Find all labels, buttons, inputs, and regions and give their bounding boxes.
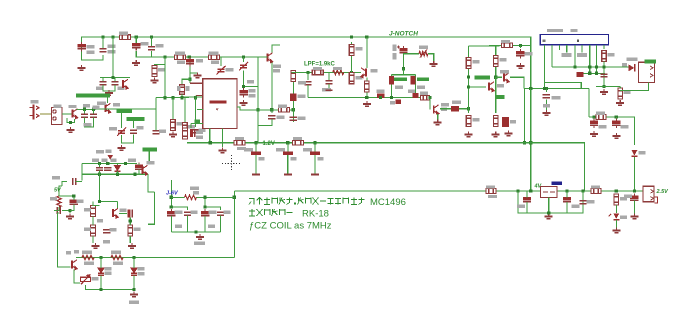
wire [615,117,617,120]
junction [379,96,382,99]
crystal X2 body [389,76,394,85]
wire [366,78,368,98]
resistor R31 [57,196,61,207]
junction [581,189,584,192]
header pin 6 wire [581,45,583,53]
wire [258,119,272,126]
ground [612,133,620,138]
net polygon bar B [116,109,132,113]
wire [593,117,595,120]
label C44 [175,211,183,214]
wire [102,37,104,48]
wire [189,57,191,79]
ground [545,214,553,219]
capacitor C19 [325,81,332,84]
net polygon bar H [474,76,490,80]
junction [194,230,197,233]
wire [566,202,568,213]
wire [403,53,405,69]
wire Q1 emitter [271,63,273,113]
label C30 [276,148,285,151]
diode D4 LED [609,213,620,219]
wire [76,257,234,259]
junction [111,35,114,38]
wire [85,118,94,128]
wire x4 return [620,82,648,90]
junction [124,162,127,165]
label R8 [278,105,287,108]
wire [189,79,191,83]
label Q11 [66,251,71,254]
wire vxo rail [100,77,130,79]
label D1 [626,58,637,61]
wire 8V rail [136,56,258,58]
label C22 [452,101,461,104]
label R37 [111,251,121,254]
label C38 [128,159,136,162]
wire [148,192,154,224]
label [622,63,627,66]
junction [313,141,316,144]
label C42 [110,228,117,231]
junction [428,96,431,99]
wire [526,191,528,198]
junction [588,72,591,75]
junction [516,189,519,192]
wire [99,164,101,168]
wire X5 hook [654,197,658,203]
ground [430,61,438,66]
svg-text:1.2V: 1.2V [263,141,275,147]
junction [92,108,95,111]
label [138,272,145,275]
junction [615,115,618,118]
resistor R37 [111,255,123,259]
capacitor C45 [184,212,191,215]
connector X1 jack [30,105,40,120]
wire [86,285,135,290]
wire [437,114,439,120]
junction [270,108,273,111]
wire [148,152,150,164]
ground [128,243,136,248]
label C2 [108,45,116,48]
label [393,53,397,60]
label C5 [196,59,203,62]
trimmer capacitor CT1 [217,66,226,75]
label C10 [137,126,144,129]
wire [596,85,620,87]
wire [205,197,221,210]
diode D5 [114,166,120,172]
junction [171,96,174,99]
electrolytic C24 [502,117,509,127]
wire [469,86,486,88]
label C34 [587,200,595,203]
electrolytic C1 [77,42,85,51]
junction [494,76,497,79]
wire [148,174,154,192]
electrolytic C28 [612,119,620,128]
wire [255,143,257,152]
electrolytic C27 [590,119,598,128]
svg-text:J-NOTCH: J-NOTCH [389,31,418,38]
junction [547,211,550,214]
electrolytic C46 [201,209,209,218]
electrolytic C29 plate [252,174,260,176]
junction [98,200,101,203]
label R1 [119,32,128,35]
capacitor C11 [81,114,88,117]
capacitor C12 [90,114,97,117]
label C47 [224,211,231,214]
electrolytic C33 [563,195,571,204]
wire Q1 collector [272,45,280,53]
label C45 [191,211,198,214]
electrolytic C32 [523,195,531,204]
junction [588,65,591,68]
junction [180,96,183,99]
label R29 [591,185,600,188]
label R36 [82,251,92,254]
wire [164,57,166,98]
wire [99,171,101,175]
label [249,94,256,97]
electrolytic C31 [310,152,320,155]
wire [184,98,186,122]
capacitor C10 [130,130,137,133]
electrolytic C40 [70,198,78,207]
label CT2 [109,127,117,130]
label C12 [93,106,100,109]
wire cell bottom [171,231,220,233]
wire [496,76,502,78]
junction [69,121,72,124]
label C8 [96,87,103,90]
schematic title line2 katakana [249,209,293,216]
electrolytic C30 plate [284,174,292,176]
wire [292,72,294,122]
wire [181,94,183,98]
wire [92,217,94,226]
junction [350,35,353,38]
transistor Q9 [143,165,148,175]
label value [108,50,116,53]
junction [519,44,522,47]
label CT1 [226,68,234,71]
varactor D7 [131,268,137,275]
junction [365,96,368,99]
junction [106,162,109,165]
label C6 [249,89,256,92]
wire vol rail [589,117,634,145]
ground [616,100,624,105]
wire [519,45,521,48]
header pin 4 wire [566,45,568,53]
label JP1 [547,29,563,32]
wire [197,196,235,198]
label C1 [87,45,95,48]
wire [428,54,434,62]
transistor Q7 [489,82,494,92]
label D7 [138,267,145,270]
label [237,147,246,150]
label [193,191,199,194]
label [106,150,112,153]
wire 12V bus [187,143,584,191]
junction [292,108,295,111]
connector X4 body [638,62,654,82]
ground [516,63,524,68]
label [177,61,185,64]
connector X5 body [643,186,654,201]
op-amp U1 MC1496 body [203,79,237,129]
label JP1 value [570,29,577,32]
label C33 [572,205,580,208]
label [259,157,265,160]
label gnd2 [194,242,205,245]
junction [150,35,153,38]
ground [600,89,608,94]
label R14 [356,47,363,50]
capacitor C17 [290,117,297,120]
ic VR1 body [541,187,558,198]
resistor R4 [152,66,157,77]
label R6 [188,125,195,128]
junction [254,141,257,144]
wire [204,216,206,232]
header pin 9 wire [603,45,605,49]
net polygon bar A [76,93,110,97]
header pin 7 wire [589,45,591,74]
wire [100,174,118,201]
transistor Q5 [361,68,366,78]
resistor R2 [175,55,186,60]
label C35 [624,195,632,198]
label C26 [552,96,561,99]
wire [619,86,621,88]
wire [135,37,137,43]
wire [220,57,222,66]
label C13 [199,129,206,132]
ground [118,145,126,150]
wire [93,202,100,206]
wire [566,191,568,198]
wire [171,196,184,198]
ground [630,214,638,219]
wire Q4 emitter [67,118,75,122]
wire lpf bottom [308,97,430,99]
label [74,250,79,253]
resistor R5 [171,120,176,131]
capacitor C18 [304,82,311,85]
wire [468,109,470,113]
diode D1 [628,64,635,71]
electrolytic C31 plate [311,174,319,176]
label Q4 [69,105,77,108]
junction [523,141,526,144]
capacitor C39 [73,178,76,185]
junction [467,107,470,110]
capacitor C34 [579,201,586,204]
net polygon bar X4 [645,59,656,63]
capacitor C47 [217,212,224,215]
ground [67,127,75,132]
wire [116,202,118,208]
label [84,262,94,265]
wire [116,164,118,166]
ground [434,120,442,125]
electrolytic C5 [186,57,194,66]
junction [188,56,191,59]
label R12 [333,67,342,70]
wire [307,85,309,98]
resistor R33 [91,225,96,236]
schematic title line1 kanji [351,198,365,205]
wire [103,85,115,91]
diode D2 [576,72,583,77]
label C7 [277,116,285,119]
wire [633,201,635,214]
wire [112,98,156,109]
wire [510,77,524,88]
label C29 [244,148,253,151]
label Q5 [371,69,378,72]
wire T1 to Q4 base [62,113,72,115]
label R24 [624,91,631,94]
wire [73,196,75,200]
junction [98,173,101,176]
electrolytic C48 [377,94,385,99]
wire Q3 drain [107,97,109,103]
wire [429,98,431,110]
label C24 [510,120,516,123]
label R38 [92,277,99,280]
wire long vert 530 [530,89,532,192]
junction [467,75,470,78]
gray pad pin6 [577,53,587,57]
label R21 [500,58,507,61]
wire [307,72,309,79]
wire [190,124,192,128]
resistor R18 [466,58,471,69]
capacitor C26 [543,95,550,98]
transistor Q6 [434,105,439,115]
junction [83,108,86,111]
transistor Q10 [113,208,118,218]
junction [350,71,353,74]
wire [615,220,617,228]
junction [116,173,119,176]
trimmer R16 [419,52,428,56]
header pin 5 wire [574,45,576,67]
label [273,69,280,72]
ground [590,131,598,136]
resistor R19 [466,116,471,127]
junction [68,209,71,212]
junction [595,65,598,68]
wire U1 left pin1 [195,96,197,98]
wire [92,236,94,243]
junction [592,115,595,118]
wire vxo top rail [82,163,137,165]
wire [92,109,94,113]
junction [98,162,101,165]
label [103,240,110,243]
wire [495,46,497,77]
wire [81,164,83,181]
electrolytic C22 [451,106,459,112]
wire [390,75,392,98]
ground [218,148,226,153]
electrolytic C30 [283,152,293,155]
varactor D6 [98,268,104,275]
electrolytic C16 [290,93,296,101]
label [318,157,324,160]
label Q3 [97,102,106,105]
wire [88,124,90,127]
transformer T1 [52,108,63,125]
capacitor C49 [396,100,402,105]
junction [306,71,309,74]
wire [132,121,134,129]
net polygon bar I [495,95,505,99]
ground [612,228,620,233]
svg-text:MC1496: MC1496 [370,197,406,208]
wire [328,84,330,90]
electrolytic C29 [251,152,261,155]
ground [92,243,100,248]
svg-text:LPF=1.9kC: LPF=1.9kC [304,61,336,67]
electrolytic C20 plus [397,46,400,49]
electrolytic C6 [239,88,247,97]
label X1 [31,100,39,103]
wire lpf [291,71,361,73]
wire U1 left pin2 [197,108,203,110]
capacitor C36 [96,168,103,171]
resistor R26 [234,140,245,145]
wire main 6V bus [234,190,643,192]
wire [121,113,123,128]
origin crosshair [222,155,241,172]
label R16 [419,46,428,49]
label [196,136,203,139]
net polygon bar F [394,77,407,81]
junction [286,141,289,144]
ic VR1 label bar [552,182,563,186]
connector JP1 mid mark [577,40,579,43]
wire vert 234 [233,191,235,258]
header pin 1 wire [543,45,545,89]
label R39 [177,86,181,91]
label C37 [102,159,108,162]
wire [244,71,258,87]
wire [220,216,222,233]
wire [155,109,157,130]
wire [182,79,190,85]
junction [390,96,393,99]
label gnd [129,301,139,304]
wire [351,42,353,72]
wire vfo supply [58,213,71,267]
label Q7 [497,84,504,87]
label R2 [175,52,185,55]
wire [74,270,80,284]
wire [76,181,82,183]
wire [391,74,415,76]
resistor R15 [365,81,370,92]
junction [233,196,236,199]
